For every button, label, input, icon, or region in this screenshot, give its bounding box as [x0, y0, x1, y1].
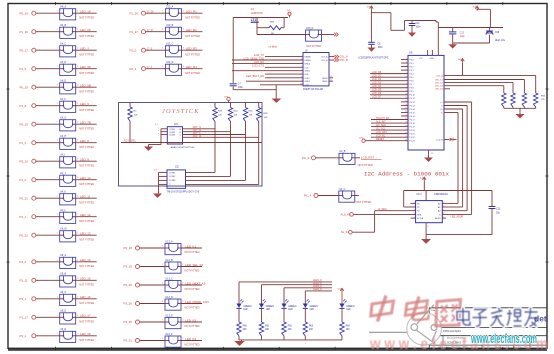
svg-text:C26: C26 [495, 32, 500, 34]
svg-text:14: 14 [405, 104, 407, 106]
svg-text:x: x [158, 133, 159, 135]
svg-text:NOT FITTED: NOT FITTED [79, 163, 94, 167]
svg-text:100n: 100n [378, 47, 384, 49]
svg-text:5: 5 [406, 72, 407, 74]
svg-text:GND0: GND0 [305, 64, 311, 66]
svg-text:U13_D: U13_D [165, 296, 173, 299]
svg-text:2: 2 [414, 206, 415, 208]
svg-text:U4_D: U4_D [60, 61, 66, 64]
svg-text:10K: 10K [249, 115, 253, 117]
svg-text:P0.23: P0.23 [410, 141, 416, 143]
svg-text:CLK2: CLK2 [305, 78, 311, 80]
svg-text:NOT FITTED: NOT FITTED [185, 306, 200, 310]
svg-text:U9_B: U9_B [60, 273, 66, 276]
svg-text:2: 2 [301, 55, 302, 57]
svg-text:GND1: GND1 [305, 71, 311, 73]
svg-text:LCD_B: LCD_B [436, 139, 443, 141]
svg-text:19: 19 [405, 122, 407, 124]
svg-text:x: x [158, 130, 159, 132]
svg-text:g, 1379 and dpi01: g, 1379 and dpi01 [440, 329, 461, 333]
svg-text:U2_C: U2_C [339, 188, 345, 191]
svg-text:P1_17: P1_17 [20, 315, 29, 319]
svg-text:P1_27: P1_27 [130, 30, 139, 34]
svg-text:LED_29: LED_29 [80, 28, 91, 32]
svg-text:LCD_CTS: LCD_CTS [252, 64, 264, 68]
svg-text:P0.15: P0.15 [410, 112, 416, 114]
svg-text:P3_1: P3_1 [20, 297, 27, 301]
svg-text:LED4_K: LED4_K [313, 288, 322, 291]
svg-text:P0.14: P0.14 [410, 109, 416, 111]
svg-text:LED_K1: LED_K1 [185, 244, 196, 248]
svg-text:LED_15: LED_15 [80, 277, 91, 281]
svg-text:P0_20: P0_20 [20, 159, 29, 163]
svg-text:17_1: 17_1 [147, 67, 153, 69]
svg-text:NOT FITTED: NOT FITTED [185, 15, 200, 19]
svg-text:LED_R3: LED_R3 [186, 47, 197, 51]
svg-text:P0.13: P0.13 [410, 105, 416, 107]
svg-text:3: 3 [301, 59, 302, 61]
svg-text:COM1: COM1 [169, 173, 176, 175]
svg-text:U4_C: U4_C [60, 43, 66, 46]
svg-text:P0_16: P0_16 [20, 11, 29, 15]
svg-text:TM-JOYSTICK(PPLX2/GY GY0: TM-JOYSTICK(PPLX2/GY GY0 [167, 191, 200, 193]
svg-text:COL_B: COL_B [321, 60, 328, 62]
svg-text:LED_K2: LED_K2 [435, 83, 444, 85]
svg-text:GND0: GND0 [322, 78, 328, 80]
svg-text:LED_49: LED_49 [80, 65, 91, 69]
svg-text:U4_M: U4_M [60, 228, 66, 231]
svg-text:10K: 10K [134, 115, 138, 117]
svg-text:P1_26: P1_26 [130, 11, 139, 15]
svg-text:LED_19: LED_19 [80, 10, 91, 14]
svg-text:R60: R60 [243, 326, 248, 328]
svg-text:R62: R62 [288, 326, 293, 328]
svg-text:U9_C: U9_C [60, 291, 66, 294]
svg-text:NOT FITTED: NOT FITTED [79, 338, 94, 342]
svg-text:NOT FITTED: NOT FITTED [79, 108, 94, 112]
svg-text:NOT FITTED: NOT FITTED [185, 52, 200, 56]
svg-text:GREEN: GREEN [243, 306, 252, 308]
svg-text:COM2: COM2 [169, 176, 176, 178]
svg-text:LED_BKLT_EN: LED_BKLT_EN [246, 74, 264, 78]
svg-text:P0.19: P0.19 [410, 126, 416, 128]
svg-text:U13_F: U13_F [165, 333, 173, 336]
svg-text:NOT FITTED: NOT FITTED [79, 200, 94, 204]
svg-text:10: 10 [300, 84, 302, 86]
svg-text:COM1: COM1 [169, 129, 176, 131]
svg-text:10n: 10n [496, 211, 501, 214]
svg-text:P0.12: P0.12 [410, 102, 416, 104]
svg-text:20: 20 [405, 125, 407, 127]
svg-text:4: 4 [301, 62, 302, 64]
svg-text:8: 8 [301, 77, 302, 79]
svg-text:CMP9016A: CMP9016A [434, 192, 448, 196]
svg-text:P0.17: P0.17 [410, 119, 416, 121]
svg-text:ANALOG(SMT) ATTS4D: ANALOG(SMT) ATTS4D [171, 146, 195, 149]
svg-text:P2_1: P2_1 [130, 67, 137, 71]
svg-text:LED_13: LED_13 [80, 232, 91, 236]
svg-text:DATA0: DATA0 [305, 56, 312, 59]
svg-text:LED: LED [346, 309, 351, 311]
svg-text:P3_18: P3_18 [124, 246, 133, 250]
svg-text:COL_B: COL_B [340, 59, 349, 62]
svg-text:LED_ADDR: LED_ADDR [451, 215, 464, 218]
svg-text:JOY_R: JOY_R [193, 134, 202, 138]
svg-text:NOT FITTED: NOT FITTED [306, 44, 321, 48]
svg-text:LED_7B: LED_7B [80, 121, 91, 125]
svg-text:P3_19: P3_19 [124, 265, 133, 269]
svg-text:P0_19: P0_19 [20, 122, 29, 126]
svg-text:NOT FITTED: NOT FITTED [79, 126, 94, 130]
svg-text:NOT FITTED: NOT FITTED [79, 182, 94, 186]
svg-text:LED_K6: LED_K6 [185, 337, 196, 341]
svg-text:23: 23 [405, 136, 407, 138]
svg-text:21: 21 [405, 129, 407, 131]
svg-text:U12_C: U12_C [166, 43, 174, 46]
svg-text:LED_16: LED_16 [80, 295, 91, 299]
svg-text:DATA1: DATA1 [305, 59, 312, 62]
svg-text:U4_H: U4_H [60, 135, 66, 138]
svg-text:STB: STB [305, 74, 310, 76]
svg-text:10: 10 [405, 90, 407, 92]
svg-text:R64: R64 [346, 326, 351, 328]
svg-text:16: 16 [405, 111, 407, 113]
svg-text:7: 7 [301, 73, 302, 75]
svg-text:NOT FITTED: NOT FITTED [185, 34, 200, 38]
svg-text:U4_K: U4_K [60, 191, 66, 194]
svg-text:P3_0: P3_0 [20, 260, 27, 264]
svg-text:U12_B: U12_B [166, 24, 174, 27]
svg-text:x: x [158, 127, 159, 129]
svg-text:P0.20: P0.20 [410, 130, 416, 132]
svg-text:17: 17 [405, 115, 407, 117]
svg-text:LED_R2: LED_R2 [186, 28, 197, 32]
svg-text:LED: LED [288, 309, 293, 311]
svg-text:P3_30: P3_30 [124, 320, 133, 324]
svg-text:17_27: 17_27 [147, 30, 154, 32]
svg-text:P2_0: P2_0 [130, 48, 137, 52]
svg-text:NOT FITTED: NOT FITTED [356, 200, 371, 204]
svg-text:100n: 100n [238, 87, 244, 89]
svg-text:NOT FITTED: NOT FITTED [79, 283, 94, 287]
svg-text:LED_9: LED_9 [80, 158, 89, 162]
svg-text:8: 8 [406, 83, 407, 85]
svg-text:CLK: CLK [305, 67, 310, 69]
svg-text:SDA: SDA [417, 213, 422, 216]
svg-text:LED_6: LED_6 [80, 102, 89, 106]
svg-text:LED_K4: LED_K4 [435, 89, 444, 91]
svg-text:LED: LED [243, 309, 248, 311]
svg-text:U2_B: U2_B [339, 150, 345, 153]
svg-text:LED_5B: LED_5B [80, 84, 91, 88]
svg-text:LCD_RX: LCD_RX [254, 60, 265, 64]
svg-text:R61: R61 [265, 326, 270, 328]
svg-text:11: 11 [405, 94, 407, 96]
svg-text:P0.11: P0.11 [410, 98, 416, 100]
svg-text:NOT FITTED: NOT FITTED [185, 269, 200, 273]
svg-text:3: 3 [406, 65, 407, 67]
svg-text:NOT FITTED: NOT FITTED [185, 343, 200, 347]
svg-text:NOT FITTED: NOT FITTED [185, 250, 200, 254]
svg-text:P1_11: P1_11 [20, 278, 29, 282]
svg-text:ALS_IN: ALS_IN [341, 212, 350, 216]
svg-text:6: 6 [301, 69, 302, 71]
svg-text:LED_R4: LED_R4 [186, 65, 197, 69]
svg-text:P1_0: P1_0 [20, 178, 27, 182]
svg-text:10uF, 16v: 10uF, 16v [495, 39, 506, 42]
svg-text:det: det [534, 314, 547, 324]
svg-text:U5: U5 [409, 51, 413, 55]
svg-text:U4_G: U4_G [60, 117, 66, 120]
svg-text:11: 11 [330, 76, 332, 78]
svg-text:U12_A: U12_A [166, 6, 174, 9]
svg-text:12: 12 [330, 79, 332, 81]
svg-text:NOT FITTED: NOT FITTED [79, 71, 94, 75]
svg-text:LED_10: LED_10 [80, 176, 91, 180]
svg-text:LED_K5: LED_K5 [185, 318, 196, 322]
svg-text:P1_5: P1_5 [20, 67, 27, 71]
svg-text:LED_SEL_K2: LED_SEL_K2 [185, 263, 203, 267]
svg-text:10K: 10K [218, 115, 222, 117]
svg-text:U4_J: U4_J [60, 172, 66, 175]
svg-text:RESET: RESET [376, 138, 385, 141]
svg-text:LCD_TX: LCD_TX [254, 53, 264, 57]
svg-text:LT1: LT1 [251, 18, 257, 22]
svg-text:PC_3: PC_3 [302, 156, 310, 160]
svg-text:LED_12: LED_12 [80, 213, 91, 217]
svg-text:LED_R1: LED_R1 [186, 10, 197, 14]
svg-text:7: 7 [406, 79, 407, 81]
svg-text:P1_8: P1_8 [20, 104, 27, 108]
svg-text:P0.22: P0.22 [410, 137, 416, 139]
svg-text:U9_E: U9_E [60, 328, 66, 331]
svg-text:P0.10: P0.10 [410, 95, 416, 97]
svg-text:DNI/8T DF PGLAB: DNI/8T DF PGLAB [303, 88, 323, 91]
svg-text:P0.21: P0.21 [410, 134, 416, 136]
svg-text:JOY_SEL: JOY_SEL [124, 139, 137, 143]
svg-text:NOT FITTED: NOT FITTED [79, 237, 94, 241]
svg-text:U13_C: U13_C [165, 277, 173, 280]
svg-text:5: 5 [301, 66, 302, 68]
svg-text:9: 9 [301, 80, 302, 82]
svg-text:GREEN: GREEN [266, 306, 275, 308]
svg-text:JOYSTICK: JOYSTICK [162, 108, 200, 115]
svg-text:NOT FITTED: NOT FITTED [185, 287, 200, 291]
svg-text:VCC: VCC [419, 58, 424, 60]
svg-text:100n: 100n [460, 36, 466, 38]
svg-text:NOT FITTED: NOT FITTED [79, 34, 94, 38]
svg-text:U10_D: U10_D [306, 27, 314, 30]
svg-text:LCD_SENS_TXD: LCD_SENS_TXD [244, 56, 264, 60]
svg-text:4: 4 [406, 69, 407, 71]
svg-text:I2C Address - b1000 001x: I2C Address - b1000 001x [364, 171, 449, 177]
svg-text:17_0: 17_0 [147, 48, 153, 50]
svg-text:LED_A: LED_A [436, 74, 443, 77]
svg-text:SCL/A: SCL/A [417, 217, 424, 220]
svg-text:STB1: STB1 [305, 85, 311, 87]
svg-text:LED_3: LED_3 [80, 47, 89, 51]
svg-text:LED_MODE_CH4: LED_MODE_CH4 [185, 300, 209, 304]
svg-text:U9_A: U9_A [60, 254, 66, 257]
svg-text:P1_4: P1_4 [20, 141, 27, 145]
svg-text:LED_NEXT_K3: LED_NEXT_K3 [185, 281, 205, 285]
svg-text:10K: 10K [234, 115, 238, 117]
svg-text:LED_K1: LED_K1 [435, 79, 444, 81]
svg-text:no fitted: no fitted [269, 46, 278, 49]
svg-text:U13_B: U13_B [165, 259, 173, 262]
svg-text:1: 1 [406, 58, 407, 60]
svg-text:www.elecfans.com: www.elecfans.com [470, 332, 537, 346]
svg-text:NOT FITTED: NOT FITTED [185, 324, 200, 328]
svg-text:LCD_RST: LCD_RST [361, 156, 374, 160]
svg-text:P3_25: P3_25 [124, 283, 133, 287]
svg-text:U4_B: U4_B [60, 24, 66, 27]
svg-text:NOT FITTED: NOT FITTED [79, 52, 94, 56]
svg-text:P3_31: P3_31 [124, 339, 133, 343]
svg-text:J21: J21 [174, 123, 179, 126]
svg-text:GND1: GND1 [322, 81, 328, 83]
svg-text:U13_E: U13_E [165, 314, 173, 317]
svg-text:2: 2 [406, 62, 407, 64]
svg-text:15: 15 [405, 108, 407, 110]
svg-text:P0.16: P0.16 [410, 116, 416, 118]
svg-text:SL_D: SL_D [341, 230, 348, 234]
svg-text:NOT FITTED: NOT FITTED [79, 15, 94, 19]
svg-text:9: 9 [406, 86, 407, 88]
svg-text:ADD0: ADD0 [435, 217, 441, 220]
svg-text:NOT FITTED: NOT FITTED [79, 219, 94, 223]
svg-text:VARISTOR: VARISTOR [251, 12, 263, 15]
svg-text:6: 6 [406, 76, 407, 78]
svg-text:X-: X- [441, 112, 443, 114]
svg-text:U6 2: U6 2 [417, 193, 423, 196]
svg-text:NOT FITTED: NOT FITTED [358, 163, 373, 167]
svg-text:LED_17: LED_17 [80, 314, 91, 318]
svg-text:C22: C22 [460, 33, 465, 35]
svg-text:LED_11: LED_11 [80, 195, 91, 199]
svg-text:P3_26: P3_26 [124, 302, 133, 306]
svg-text:U12_D: U12_D [166, 61, 174, 64]
svg-text:17_26: 17_26 [147, 11, 154, 13]
svg-text:24: 24 [405, 139, 407, 141]
svg-text:NOT FITTED: NOT FITTED [79, 320, 94, 324]
svg-text:13: 13 [405, 101, 407, 103]
svg-text:C13: C13 [496, 208, 501, 211]
svg-text:U4_I: U4_I [60, 154, 65, 157]
svg-text:LED: LED [310, 309, 315, 311]
svg-text:J22: J22 [175, 166, 180, 169]
svg-text:COM3: COM3 [169, 135, 176, 137]
svg-text:R63: R63 [309, 326, 314, 328]
svg-text:LED_K3: LED_K3 [435, 86, 444, 88]
svg-text:100n: 100n [416, 27, 422, 29]
svg-text:GREEN: GREEN [310, 306, 319, 308]
svg-text:P0_22: P0_22 [20, 233, 29, 237]
svg-text:10K: 10K [264, 117, 268, 119]
svg-text:PC_4: PC_4 [304, 194, 312, 198]
svg-text:NOT FITTED: NOT FITTED [79, 145, 94, 149]
svg-text:LED_8: LED_8 [80, 139, 89, 143]
svg-text:NOT FITTED: NOT FITTED [185, 71, 200, 75]
svg-text:U4_F: U4_F [60, 98, 66, 101]
svg-text:GREEN: GREEN [288, 306, 297, 308]
svg-text:P0_18: P0_18 [20, 85, 29, 89]
svg-text:P1_1: P1_1 [20, 215, 27, 219]
svg-text:GREEN: GREEN [346, 306, 355, 308]
svg-text:U4_E: U4_E [60, 80, 66, 83]
svg-text:18: 18 [405, 118, 407, 120]
svg-text:NOT FITTED: NOT FITTED [79, 301, 94, 305]
svg-text:P0.18: P0.18 [410, 123, 416, 125]
svg-text:P0_17: P0_17 [20, 48, 29, 52]
svg-text:U9_D: U9_D [60, 310, 66, 313]
svg-text:I2_SDA: I2_SDA [378, 208, 387, 211]
svg-text:U4_A: U4_A [60, 6, 66, 9]
svg-text:22: 22 [405, 132, 407, 134]
svg-text:P1_16: P1_16 [20, 30, 29, 34]
svg-text:COM3: COM3 [169, 180, 176, 182]
svg-text:LED_14: LED_14 [80, 258, 91, 262]
svg-text:NOT FITTED: NOT FITTED [79, 264, 94, 268]
svg-text:P0_21: P0_21 [20, 196, 29, 200]
svg-text:LED_18: LED_18 [80, 332, 91, 336]
svg-text:GND2: GND2 [305, 81, 311, 83]
svg-text:P3_2: P3_2 [20, 334, 27, 338]
svg-text:LCD/DISPPLAY-8T DPT DPS: LCD/DISPPLAY-8T DPT DPS [358, 56, 389, 59]
svg-text:12: 12 [405, 97, 407, 99]
svg-text:Y-: Y- [441, 105, 443, 107]
svg-text:U13_A: U13_A [165, 240, 173, 243]
svg-text:NOT FITTED: NOT FITTED [79, 89, 94, 93]
svg-text:GND: GND [430, 58, 435, 60]
svg-text:LED: LED [266, 309, 271, 311]
svg-text:COM2: COM2 [169, 132, 176, 134]
svg-text:COL_A: COL_A [321, 56, 328, 59]
svg-text:LCD_D7: LCD_D7 [372, 96, 382, 99]
svg-text:U4_L: U4_L [60, 209, 66, 212]
